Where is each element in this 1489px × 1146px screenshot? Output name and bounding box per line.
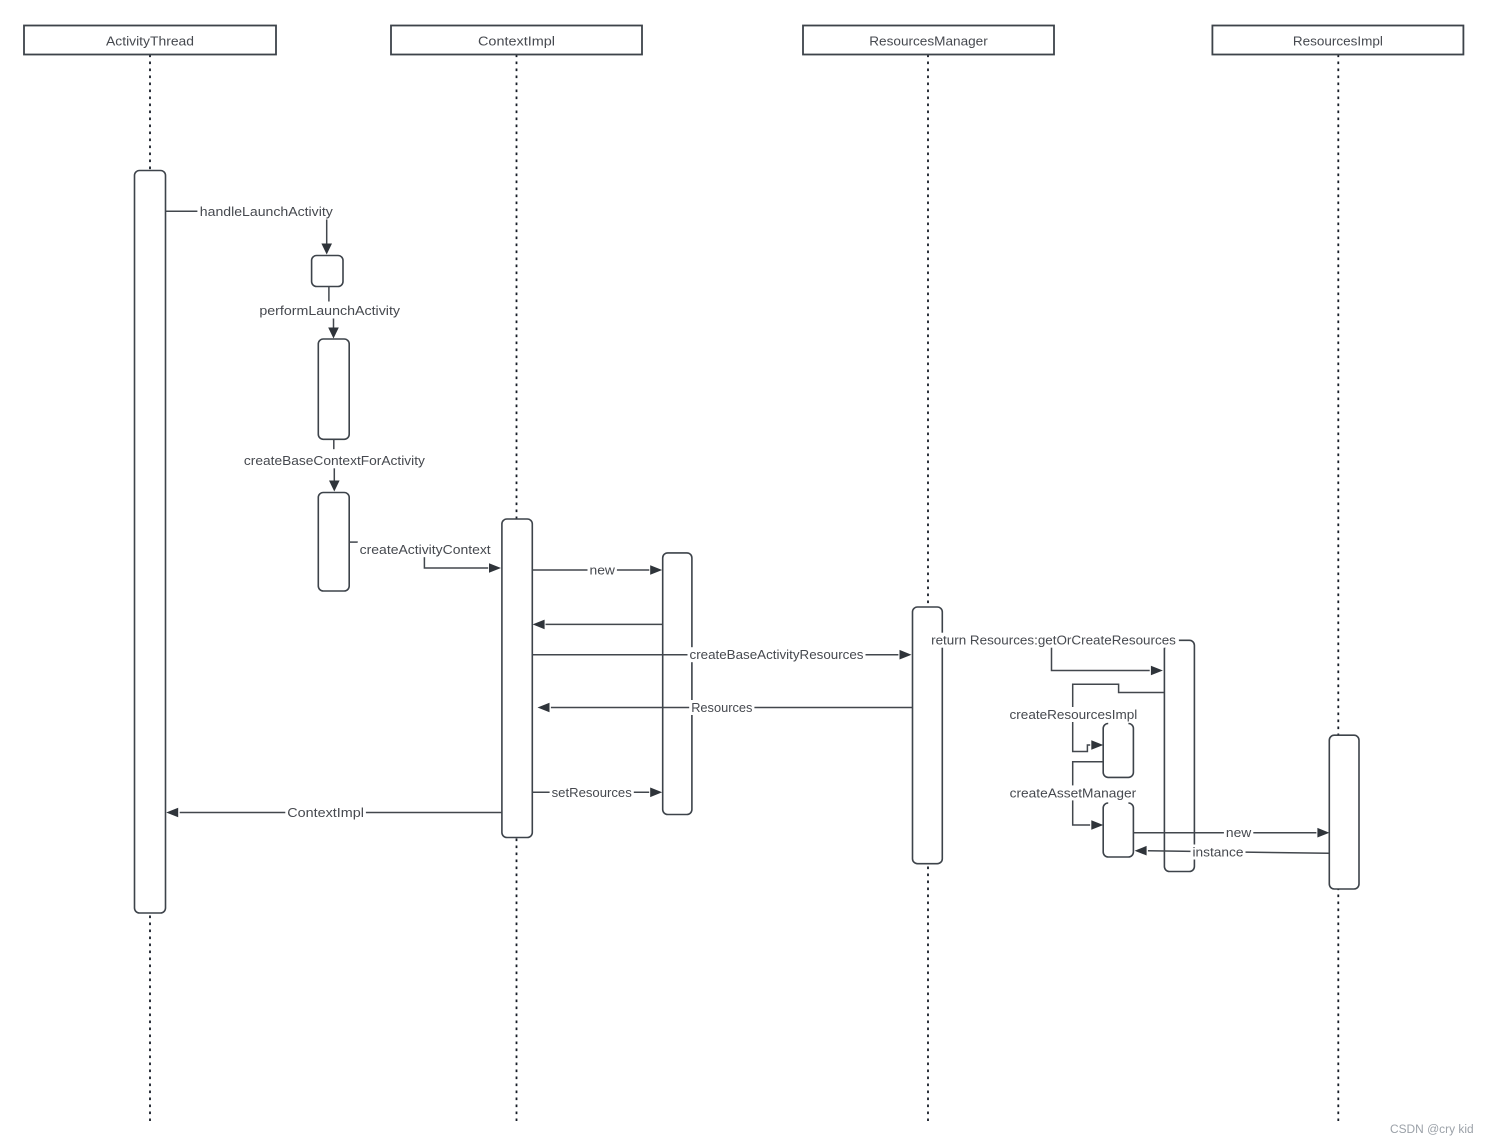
svg-text:ContextImpl: ContextImpl xyxy=(478,34,555,49)
svg-text:createBaseContextForActivity: createBaseContextForActivity xyxy=(244,453,426,468)
svg-text:Resources: Resources xyxy=(691,700,753,715)
svg-text:createActivityContext: createActivityContext xyxy=(360,542,491,557)
svg-text:ResourcesManager: ResourcesManager xyxy=(869,34,988,49)
svg-text:performLaunchActivity: performLaunchActivity xyxy=(259,303,400,318)
svg-text:ResourcesImpl: ResourcesImpl xyxy=(1293,34,1383,49)
svg-text:setResources: setResources xyxy=(552,785,633,800)
svg-text:createAssetManager: createAssetManager xyxy=(1010,785,1137,800)
svg-text:instance: instance xyxy=(1193,845,1244,860)
svg-text:CSDN @cry kid: CSDN @cry kid xyxy=(1390,1124,1474,1136)
svg-text:createBaseActivityResources: createBaseActivityResources xyxy=(690,647,865,662)
svg-text:ContextImpl: ContextImpl xyxy=(287,805,364,820)
svg-text:ActivityThread: ActivityThread xyxy=(106,34,194,49)
svg-text:handleLaunchActivity: handleLaunchActivity xyxy=(200,204,334,219)
svg-text:new: new xyxy=(590,563,616,578)
svg-text:new: new xyxy=(1226,825,1252,840)
svg-text:createResourcesImpl: createResourcesImpl xyxy=(1010,707,1138,722)
svg-text:return Resources:getOrCreateRe: return Resources:getOrCreateResources xyxy=(931,633,1176,648)
